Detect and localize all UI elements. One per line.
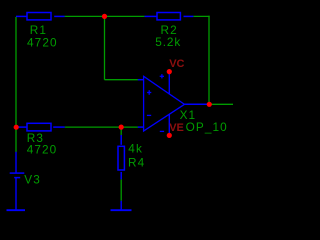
svg-text:OP_10: OP_10 [186, 120, 228, 134]
op-amp VE power pin [168, 114, 170, 135]
resistor R3 [19, 123, 65, 131]
wire between R4 and ground [120, 179, 122, 201]
minus mark near VE pin [160, 130, 164, 132]
svg-text:4k: 4k [128, 142, 143, 156]
node VC dot [167, 69, 172, 74]
junction node top (R1/R2/feedback) [102, 14, 107, 19]
svg-text:V3: V3 [24, 173, 41, 187]
junction node output [207, 102, 212, 107]
ground bar under V3 [7, 209, 26, 211]
wire output stub [209, 103, 233, 105]
resistor R2 [145, 13, 194, 20]
resistor R4 (vertical) [118, 135, 124, 179]
wire row1 right of R2 to corner [193, 15, 209, 17]
svg-text:R4: R4 [128, 155, 145, 169]
junction node row2 (R3/R4/op-amp input) [119, 125, 124, 130]
plus mark near VC pin [160, 74, 164, 78]
wire feedback vertical [104, 16, 106, 79]
op-amp minus input mark [147, 114, 151, 116]
wire row1 between R1 and R2 [65, 15, 145, 17]
op-amp output lead [185, 103, 210, 105]
op-amp input stub plus [138, 79, 144, 81]
node VE dot [167, 133, 172, 138]
wire left vertical [15, 17, 17, 152]
op-amp VC power pin [168, 72, 170, 95]
op-amp X1 triangle [144, 76, 185, 131]
svg-text:4720: 4720 [27, 143, 58, 157]
wire row2 to op-amp input [65, 126, 138, 128]
battery V3 [10, 152, 25, 210]
junction node left (V3/R3) [14, 125, 19, 130]
svg-text:VE: VE [169, 122, 184, 134]
op-amp plus input mark [147, 90, 151, 95]
svg-text:5.2k: 5.2k [155, 35, 181, 49]
op-amp input stub minus [138, 126, 144, 128]
resistor R1 [16, 13, 65, 20]
svg-text:4720: 4720 [27, 36, 58, 50]
wire right vertical [208, 16, 210, 105]
svg-text:VC: VC [169, 58, 184, 70]
ground under R4 [111, 201, 132, 210]
wire feedback horizontal [105, 79, 139, 81]
wire stub below node to R4 [120, 127, 122, 135]
